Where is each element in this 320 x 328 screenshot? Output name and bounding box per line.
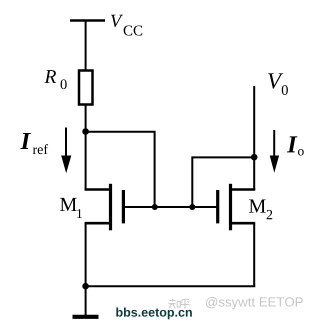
resistor R0 [79, 71, 93, 105]
wire V0 line [253, 86, 255, 190]
wire M1 source down [85, 223, 87, 287]
wire node A to gate bus [86, 132, 155, 207]
wire bottom rail [86, 285, 256, 287]
node B (output node) [251, 154, 258, 161]
label Iref [20, 133, 48, 154]
watermark zhihu glyphs [169, 299, 190, 309]
label V0 [268, 73, 288, 95]
watermark bbs.eetop.cn [116, 308, 191, 320]
node gate-drain tie [152, 204, 158, 210]
node gate-output tie [189, 204, 195, 210]
power rail VCC [70, 19, 105, 22]
current arrow Io [270, 130, 279, 173]
wire gate bus to output node [192, 157, 254, 207]
label M2 [249, 200, 272, 220]
label Io [287, 136, 304, 155]
current arrow Iref [61, 128, 71, 174]
transistor M1 [85, 184, 124, 231]
transistor M2 [218, 184, 256, 231]
wire M2 source down [253, 223, 255, 287]
label R0 [44, 70, 66, 89]
label M1 [60, 198, 82, 218]
wire resistor to M1 drain [85, 105, 87, 191]
label VCC [111, 15, 142, 36]
node A (Iref node) [82, 128, 89, 135]
node ground junction [82, 283, 89, 290]
watermark @ssywtt EETOP [206, 297, 303, 309]
ground [73, 286, 99, 317]
wire VCC to resistor [85, 21, 87, 72]
wire gate bus M1 to M2 [125, 206, 217, 208]
